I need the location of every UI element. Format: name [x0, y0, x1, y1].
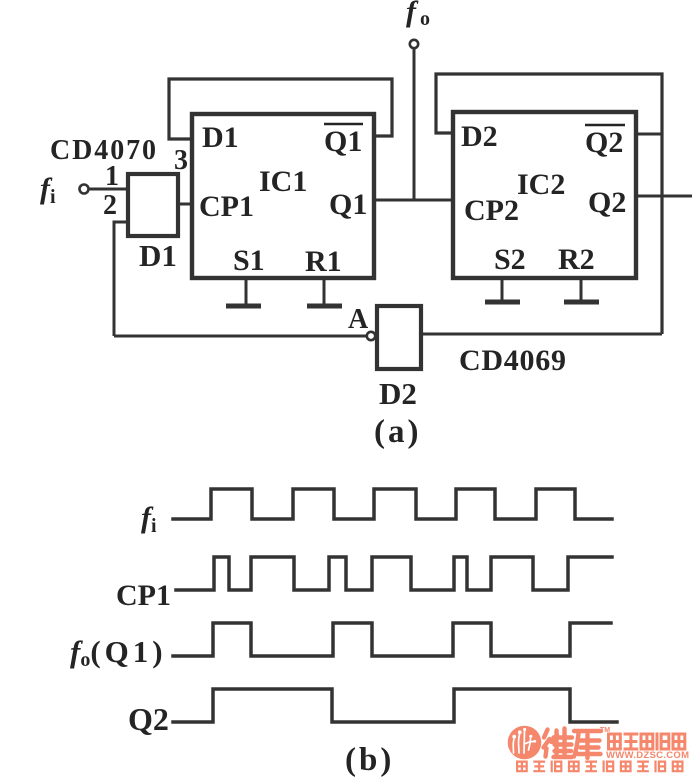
svg-text:CP1: CP1: [199, 190, 254, 223]
svg-text:D2: D2: [461, 120, 498, 153]
wire f_o tap: [413, 48, 416, 201]
svg-text:S2: S2: [494, 243, 526, 276]
wire D1 output pin3 to CP1: [178, 203, 194, 206]
svg-text:fi: fi: [40, 172, 56, 208]
svg-text:CP2: CP2: [464, 194, 519, 227]
wire Q2 output to right edge: [636, 195, 692, 198]
wire net A (D1 pin2 to D2 input): [114, 335, 366, 338]
wire Q2-bar stub: [636, 133, 663, 136]
feedback wire Q1-bar to D1 (IC1 loop): [169, 79, 392, 139]
wire f_i to D1 pin 1: [89, 188, 129, 191]
svg-text:TM: TM: [600, 727, 610, 734]
svg-text:WWW.DZSC.COM: WWW.DZSC.COM: [606, 750, 689, 761]
feedback wire loop IC2 (D2 input, Q2-bar, inverter output): [436, 74, 662, 334]
IC2 pin label Q2-bar: [585, 125, 625, 159]
ground S2: [485, 278, 520, 302]
svg-text:2: 2: [103, 190, 117, 221]
ground R2: [564, 278, 599, 302]
svg-text:CD4069: CD4069: [459, 344, 566, 377]
svg-text:(b): (b): [345, 742, 394, 778]
wire D1 pin2 feedback (down to net A): [114, 222, 128, 336]
watermark slogan 专业电子元器件交易网站: [516, 761, 684, 773]
waveform trace CP1: [176, 557, 612, 590]
wire Q1 to CP2: [374, 199, 453, 202]
svg-text:Q2: Q2: [128, 701, 169, 737]
svg-text:IC2: IC2: [517, 168, 565, 201]
svg-text:R2: R2: [558, 243, 595, 276]
svg-text:CP1: CP1: [116, 579, 171, 612]
svg-text:R1: R1: [305, 245, 342, 278]
svg-text:S1: S1: [233, 244, 265, 277]
svg-text:D1: D1: [139, 238, 177, 273]
waveform trace f_i: [173, 489, 612, 519]
svg-text:(a): (a): [374, 414, 421, 450]
inverter bubble: [367, 332, 375, 340]
watermark text 维库: [544, 729, 602, 759]
inverter D2 (CD4069): [377, 306, 421, 369]
svg-text:fo(Q1): fo(Q1): [70, 634, 167, 671]
svg-text:fi: fi: [141, 501, 157, 537]
wire D2 output: [421, 333, 662, 336]
XOR gate D1 (CD4070): [128, 174, 178, 236]
svg-text:Q2: Q2: [585, 126, 623, 159]
svg-text:1: 1: [105, 161, 119, 192]
svg-text:CD4070: CD4070: [50, 135, 156, 166]
svg-text:D1: D1: [202, 121, 239, 154]
svg-text:D2: D2: [379, 376, 417, 411]
waveform trace Q2: [173, 689, 617, 722]
svg-text:IC1: IC1: [259, 165, 307, 198]
watermark text 电子市场网: [607, 733, 686, 751]
IC1 flip-flop box: [192, 114, 374, 278]
input terminal f_i: [80, 185, 89, 194]
output terminal f_o: [410, 40, 418, 48]
watermark logo circle: [508, 726, 542, 760]
IC2 flip-flop box: [453, 112, 636, 278]
waveform trace f_o(Q1): [173, 623, 611, 656]
ground S1: [226, 278, 261, 306]
svg-text:Q1: Q1: [324, 125, 362, 158]
svg-text:Q1: Q1: [329, 188, 367, 221]
IC1 pin label Q1-bar: [324, 124, 363, 158]
svg-text:fo: fo: [406, 0, 430, 30]
svg-text:A: A: [348, 304, 369, 335]
svg-text:Q2: Q2: [588, 186, 626, 219]
ground R1: [307, 278, 342, 306]
svg-text:3: 3: [174, 145, 188, 176]
